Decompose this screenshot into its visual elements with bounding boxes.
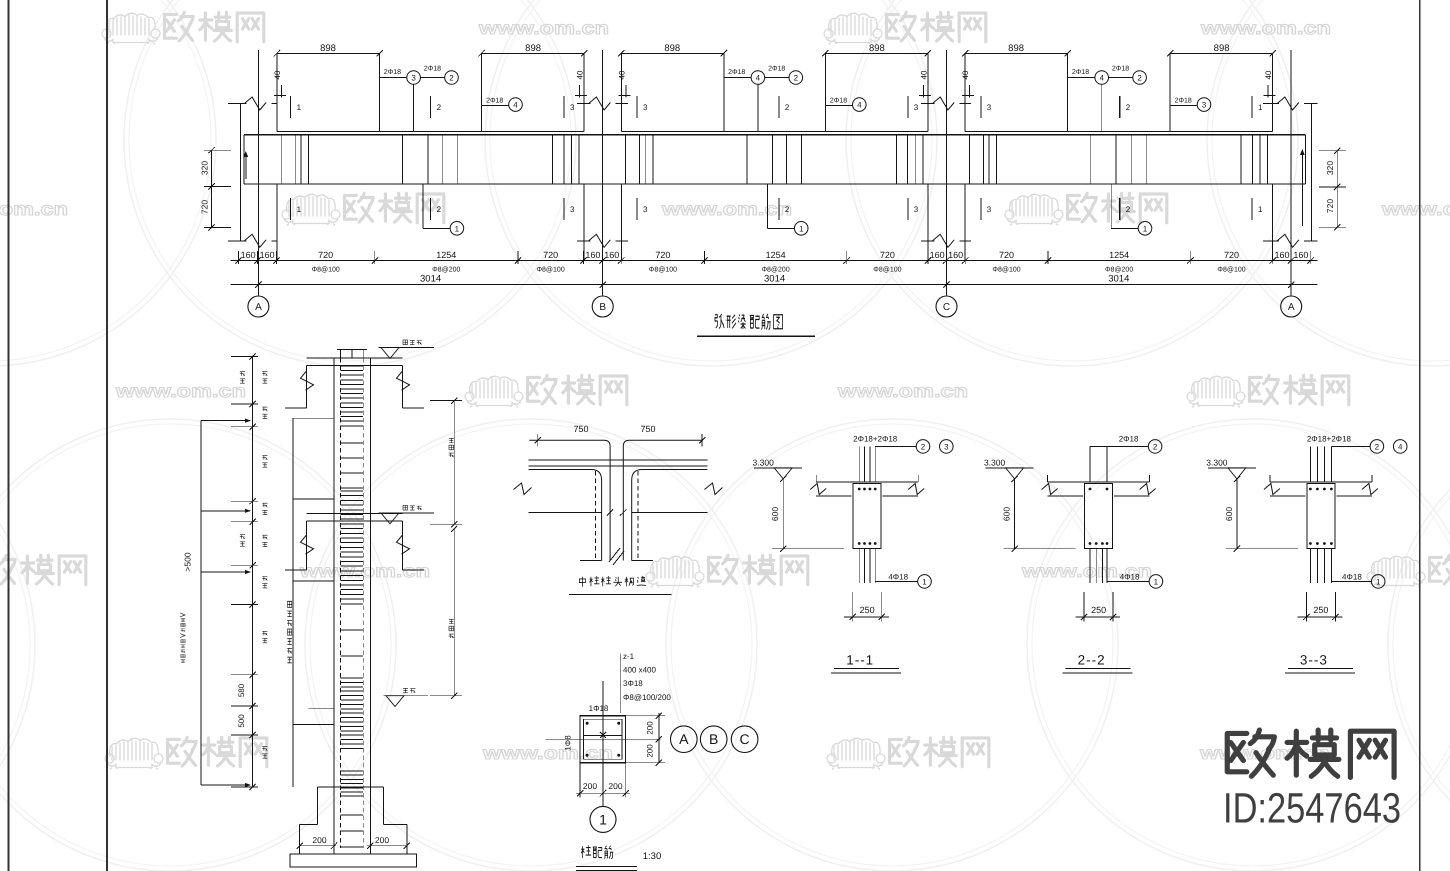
svg-text:A: A — [679, 731, 689, 747]
plan outer square — [580, 716, 626, 763]
svg-text:2: 2 — [1126, 205, 1131, 214]
svg-text:250: 250 — [1313, 605, 1328, 615]
beam left outer vertical — [240, 104, 242, 241]
svg-text:2Φ18: 2Φ18 — [1175, 98, 1192, 105]
svg-text:Φ8@100: Φ8@100 — [1217, 266, 1245, 274]
svg-text:Φ8@100: Φ8@100 — [536, 266, 564, 274]
column shaft edges — [333, 358, 335, 854]
axis bubbles A B C — [671, 726, 698, 753]
column plan title characters — [581, 845, 613, 858]
svg-text:2: 2 — [794, 74, 799, 83]
svg-text:2: 2 — [437, 205, 442, 214]
svg-text:C: C — [943, 302, 950, 313]
svg-text:4Φ18: 4Φ18 — [1120, 573, 1140, 582]
span 3 bottom bar leader to circle 1 — [1110, 184, 1112, 228]
svg-text:2Φ18: 2Φ18 — [728, 69, 745, 76]
svg-text:1: 1 — [1154, 577, 1159, 586]
head detail title — [0, 0, 1, 1]
span 3 beam interior stirrup lines — [968, 135, 970, 184]
svg-text:3: 3 — [570, 205, 575, 214]
head detail 750 ticks — [537, 434, 539, 447]
svg-text:1: 1 — [297, 205, 302, 214]
svg-text:720: 720 — [880, 250, 895, 260]
section 3--3 bottom bars — [1309, 549, 1311, 583]
svg-text:750: 750 — [640, 424, 655, 434]
beam left end edge — [243, 135, 245, 184]
head detail slab end breaks — [514, 483, 532, 495]
svg-text:4Φ18: 4Φ18 — [1342, 573, 1362, 582]
svg-text:3--3: 3--3 — [1300, 653, 1328, 668]
svg-text:3: 3 — [987, 103, 992, 112]
svg-text:200: 200 — [312, 835, 326, 845]
section 2--2 bar dots — [1089, 488, 1092, 491]
svg-text:200: 200 — [608, 781, 622, 791]
plan right dim 200/200 — [658, 713, 660, 763]
head detail slab bars bent down — [529, 470, 602, 561]
svg-text:898: 898 — [1214, 43, 1230, 54]
span 3 top bar line — [965, 131, 1273, 133]
svg-text:www.om.cn: www.om.cn — [1200, 18, 1331, 38]
dimension row 2 — [231, 284, 1318, 286]
span 1 beam interior stirrup lines — [280, 135, 282, 184]
dimension row 1 — [231, 260, 1318, 262]
span 3 898 dimension left — [965, 52, 1068, 54]
span 2 40 dim at left face — [625, 85, 627, 98]
grid bubbles A B C A — [248, 296, 269, 317]
svg-text:2Φ18: 2Φ18 — [768, 66, 785, 73]
svg-text:320: 320 — [200, 161, 210, 175]
svg-text:720: 720 — [1224, 250, 1239, 260]
svg-text:z-1: z-1 — [623, 652, 635, 661]
plan stirrup inner square — [584, 719, 623, 759]
svg-text:1: 1 — [455, 224, 460, 233]
stirrup rungs — [340, 365, 363, 367]
ground lines at column — [309, 707, 334, 709]
svg-text:40: 40 — [273, 70, 282, 79]
svg-text:www.om.cn: www.om.cn — [478, 18, 609, 38]
foundation step 2 — [300, 823, 318, 825]
svg-text:3: 3 — [570, 103, 575, 112]
plan tie hooks — [600, 732, 606, 738]
left dim line of column zones — [252, 357, 254, 788]
svg-text:600: 600 — [1224, 507, 1234, 521]
svg-text:Φ8@100: Φ8@100 — [649, 266, 677, 274]
span 3 40 dim at left face — [969, 85, 971, 98]
svg-text:600: 600 — [1002, 507, 1012, 521]
svg-text:2Φ18+2Φ18: 2Φ18+2Φ18 — [853, 435, 898, 444]
svg-text:40: 40 — [576, 70, 585, 79]
head detail top bars with bend — [529, 440, 610, 560]
svg-text:4Φ18: 4Φ18 — [888, 573, 908, 582]
svg-text:160: 160 — [1293, 250, 1308, 260]
section 3--3 bar dots — [1309, 488, 1312, 491]
floor beam soffit stubs — [285, 569, 307, 571]
span 3 898 dimension right — [1170, 52, 1273, 54]
beam outline bottom edge — [244, 183, 1306, 185]
svg-text:580: 580 — [237, 683, 246, 697]
svg-text:200: 200 — [646, 744, 655, 758]
svg-text:2Φ18: 2Φ18 — [486, 98, 503, 105]
span 1 898 dimension right — [482, 52, 585, 54]
beam outline top edge — [244, 134, 1306, 136]
svg-text:4: 4 — [857, 101, 862, 110]
svg-text:3: 3 — [914, 103, 919, 112]
site logo text — [0, 0, 1, 1]
column top bar hooks — [337, 349, 367, 351]
svg-text:www.om.cn: www.om.cn — [115, 381, 246, 401]
svg-text:3: 3 — [411, 74, 416, 83]
svg-text:250: 250 — [1091, 605, 1106, 615]
svg-text:898: 898 — [320, 43, 336, 54]
svg-text:200: 200 — [583, 781, 597, 791]
svg-text:2: 2 — [785, 103, 790, 112]
svg-text:1:30: 1:30 — [643, 851, 662, 862]
span 1 bottom bar leader to circle 1 — [422, 184, 424, 228]
svg-text:www.om.cn: www.om.cn — [482, 743, 613, 763]
svg-text:2: 2 — [1126, 103, 1131, 112]
svg-text:1Φ18: 1Φ18 — [589, 704, 609, 713]
grid lines — [257, 50, 259, 296]
title of beam diagram — [0, 0, 1, 1]
svg-text:250: 250 — [860, 605, 875, 615]
svg-text:160: 160 — [930, 250, 945, 260]
svg-text:720: 720 — [200, 200, 210, 214]
stirrup dense range label — [287, 601, 292, 663]
page border right — [1419, 0, 1421, 871]
section 2--2 column rectangle — [1085, 484, 1113, 549]
section 3--3 600 dim — [1236, 479, 1238, 549]
foundation step 1 — [318, 786, 384, 788]
span 2 column face verticals above beam — [620, 53, 622, 131]
section 1--1 column rectangle — [853, 484, 881, 549]
svg-text:160: 160 — [585, 250, 600, 260]
span 1 40 dim at right face — [579, 85, 581, 98]
svg-text:www.om.cn: www.om.cn — [0, 199, 68, 219]
svg-text:ID:2547643: ID:2547643 — [1223, 786, 1401, 833]
svg-text:>500: >500 — [183, 552, 193, 571]
right dim column clear height upper — [453, 401, 455, 525]
svg-text:C: C — [740, 731, 750, 747]
span 3 40 dim at right face — [1267, 85, 1269, 98]
svg-text:1: 1 — [297, 103, 302, 112]
svg-text:600: 600 — [770, 507, 780, 521]
svg-text:2Φ18: 2Φ18 — [384, 69, 401, 76]
svg-text:160: 160 — [604, 250, 619, 260]
svg-text:1--1: 1--1 — [846, 653, 874, 668]
svg-text:200: 200 — [375, 835, 389, 845]
roof beam cut verticals with breaks — [306, 365, 308, 408]
svg-text:898: 898 — [869, 43, 885, 54]
svg-text:1: 1 — [1258, 103, 1263, 112]
head detail slab bottom — [529, 512, 602, 514]
svg-text:2Φ18: 2Φ18 — [1072, 69, 1089, 76]
svg-text:2: 2 — [1137, 74, 1142, 83]
svg-text:3: 3 — [1202, 101, 1207, 110]
beam right outer vertical — [1311, 104, 1313, 241]
svg-text:1254: 1254 — [766, 250, 786, 260]
svg-text:720: 720 — [1325, 199, 1335, 213]
svg-text:www.om.cn: www.om.cn — [299, 561, 430, 581]
head detail dashed bars — [595, 471, 597, 561]
svg-text:160: 160 — [241, 250, 256, 260]
svg-text:www.om.cn: www.om.cn — [1381, 199, 1450, 219]
bar hook left end — [245, 155, 247, 179]
ground level symbol — [384, 695, 429, 697]
svg-text:160: 160 — [1274, 250, 1289, 260]
plan center horizontal axis — [546, 738, 661, 740]
svg-text:4: 4 — [513, 101, 518, 110]
svg-text:3: 3 — [914, 205, 919, 214]
plan corner bar dots — [586, 722, 589, 725]
roof level symbol — [379, 347, 435, 349]
section 1--1 250 dim — [852, 592, 854, 622]
svg-text:4: 4 — [1398, 442, 1403, 451]
svg-text:2Φ18: 2Φ18 — [1119, 435, 1139, 444]
svg-text:Φ8@100: Φ8@100 — [312, 266, 340, 274]
svg-text:1254: 1254 — [1109, 250, 1129, 260]
span 2 898 dimension left — [621, 52, 724, 54]
svg-text:3.300: 3.300 — [984, 458, 1006, 468]
svg-text:www.om.cn: www.om.cn — [837, 381, 968, 401]
svg-text:2: 2 — [1153, 442, 1158, 451]
section 1--1 bar dots — [858, 488, 861, 491]
section 2--2 250 dim — [1083, 592, 1085, 622]
beam right end edge — [1305, 135, 1307, 184]
svg-text:720: 720 — [999, 250, 1014, 260]
svg-text:160: 160 — [260, 250, 275, 260]
svg-text:1: 1 — [1376, 577, 1381, 586]
svg-text:3: 3 — [944, 442, 949, 451]
head detail slab top lines — [529, 459, 708, 461]
svg-text:2: 2 — [449, 74, 454, 83]
column longitudinal bars dashed — [339, 358, 341, 848]
section 2--2 slab — [1048, 481, 1150, 483]
section 2--2 bottom bars — [1089, 549, 1091, 583]
svg-text:2Φ18: 2Φ18 — [830, 98, 847, 105]
svg-text:3: 3 — [643, 103, 648, 112]
svg-text:750: 750 — [573, 424, 588, 434]
svg-text:40: 40 — [919, 70, 928, 79]
left splice boxes — [292, 418, 294, 787]
svg-text:2: 2 — [921, 442, 926, 451]
svg-text:898: 898 — [525, 43, 541, 54]
right dim column clear height lower — [453, 529, 455, 696]
svg-text:3014: 3014 — [764, 274, 785, 285]
svg-text:720: 720 — [543, 250, 558, 260]
svg-text:200: 200 — [646, 721, 655, 735]
section 2--2 top bars — [1089, 446, 1091, 482]
foundation base — [290, 854, 416, 867]
svg-text:160: 160 — [948, 250, 963, 260]
roof beam double line — [307, 357, 403, 359]
section 1--1 bottom bars — [858, 549, 860, 583]
svg-text:4: 4 — [1099, 74, 1104, 83]
svg-text:898: 898 — [1008, 43, 1024, 54]
svg-text:1Φ8: 1Φ8 — [564, 735, 573, 751]
svg-text:2--2: 2--2 — [1078, 653, 1106, 668]
left bracket with arrows — [200, 421, 202, 785]
svg-text:3014: 3014 — [1108, 274, 1129, 285]
svg-text:1: 1 — [799, 224, 804, 233]
svg-text:3.300: 3.300 — [1206, 458, 1228, 468]
span 2 top bar line — [621, 131, 928, 133]
svg-text:Φ8@200: Φ8@200 — [761, 266, 789, 274]
svg-text:2: 2 — [785, 205, 790, 214]
span 1 top bar line — [277, 131, 584, 133]
floor beam cut verticals with breaks — [306, 521, 308, 570]
floor beam double line — [307, 513, 403, 515]
page border left outer — [8, 0, 10, 871]
svg-text:www.om.cn: www.om.cn — [661, 199, 792, 219]
section 3--3 column rectangle — [1307, 484, 1335, 549]
span 1 column face verticals below beam — [276, 184, 278, 261]
plan leader line — [619, 654, 621, 714]
span 1 column face verticals above beam — [276, 53, 278, 131]
head detail column bottom stubs — [580, 560, 602, 562]
svg-text:3014: 3014 — [420, 274, 441, 285]
plan inner tie line — [584, 734, 623, 736]
span 2 40 dim at right face — [922, 85, 924, 98]
svg-text:898: 898 — [664, 43, 680, 54]
break lines at grids top and bottom — [228, 103, 246, 105]
roof beam soffit stubs — [285, 407, 307, 409]
svg-text:3Φ18: 3Φ18 — [623, 679, 643, 688]
svg-text:B: B — [709, 731, 718, 747]
svg-text:A: A — [255, 302, 262, 313]
section 1--1 slab — [816, 481, 918, 483]
column head detail title characters — [579, 576, 646, 586]
svg-text:Φ8@100: Φ8@100 — [873, 266, 901, 274]
span 1 898 dimension left — [277, 52, 380, 54]
svg-text:720: 720 — [655, 250, 670, 260]
span 1 40 dim at left face — [281, 85, 283, 98]
svg-text:2Φ18+2Φ18: 2Φ18+2Φ18 — [1307, 435, 1352, 444]
svg-text:1: 1 — [599, 811, 607, 827]
big site logo characters — [1227, 730, 1394, 777]
bar hook right end — [1301, 153, 1303, 226]
svg-text:720: 720 — [318, 250, 333, 260]
beam depth dim left 320/720 — [204, 149, 231, 151]
svg-text:500: 500 — [237, 714, 246, 728]
section marks top — [290, 96, 292, 118]
section 1--1 600 dim — [782, 479, 784, 549]
span 2 898 dimension right — [825, 52, 928, 54]
svg-text:4: 4 — [756, 74, 761, 83]
plan bottom dim 200/200 — [579, 763, 581, 798]
plan title — [0, 0, 1, 1]
span 3 column face verticals above beam — [964, 53, 966, 131]
svg-text:3.300: 3.300 — [753, 458, 775, 468]
page border left inner — [106, 0, 108, 871]
svg-text:A: A — [1288, 302, 1295, 313]
section 3--3 slab — [1270, 481, 1372, 483]
svg-text:3: 3 — [987, 205, 992, 214]
section 1--1 top bars — [858, 446, 860, 482]
span 2 column face verticals below beam — [620, 184, 622, 261]
span 3 column face verticals below beam — [964, 184, 966, 261]
beam diagram title characters — [715, 314, 783, 330]
span 2 beam interior stirrup lines — [625, 135, 627, 184]
section marks bottom — [290, 198, 292, 220]
beam depth dim right 320/720 — [1319, 150, 1346, 152]
svg-text:40: 40 — [617, 70, 626, 79]
svg-text:1: 1 — [922, 577, 927, 586]
svg-text:40: 40 — [1264, 70, 1273, 79]
svg-text:2Φ18: 2Φ18 — [1112, 66, 1129, 73]
svg-text:1: 1 — [1258, 205, 1263, 214]
svg-text:2: 2 — [1375, 442, 1380, 451]
span 2 bottom bar leader to circle 1 — [766, 184, 768, 228]
section 3--3 top bars — [1309, 446, 1311, 482]
svg-text:40: 40 — [961, 70, 970, 79]
svg-text:1: 1 — [1143, 224, 1148, 233]
liang gao labels — [240, 372, 245, 383]
svg-text:B: B — [599, 302, 606, 313]
floor level symbol — [379, 512, 435, 514]
plan center vertical axis — [602, 681, 604, 806]
svg-text:1254: 1254 — [436, 250, 456, 260]
svg-text:Φ8@100/200: Φ8@100/200 — [623, 693, 671, 702]
svg-text:Φ8@200: Φ8@200 — [1105, 266, 1133, 274]
svg-text:2: 2 — [437, 103, 442, 112]
plan circle 1 — [590, 806, 616, 832]
zone labels rotated — [262, 372, 267, 383]
svg-text:400 x400: 400 x400 — [623, 666, 656, 675]
svg-text:3: 3 — [643, 205, 648, 214]
section 2--2 600 dim — [1014, 479, 1016, 549]
svg-text:320: 320 — [1325, 161, 1335, 175]
svg-text:Φ8@200: Φ8@200 — [432, 266, 460, 274]
section 3--3 250 dim — [1305, 592, 1307, 622]
svg-text:2Φ18: 2Φ18 — [424, 66, 441, 73]
svg-text:Φ8@100: Φ8@100 — [992, 266, 1020, 274]
